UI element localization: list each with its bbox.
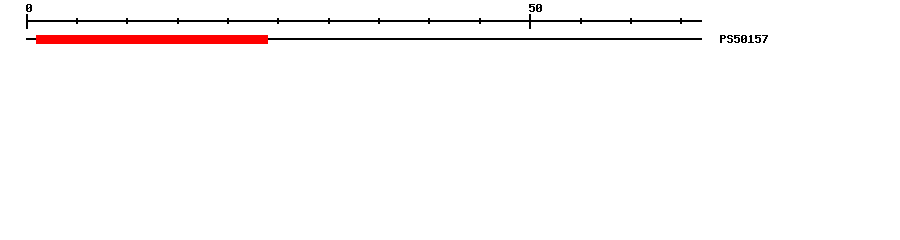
ruler minor tick 10 bbox=[126, 18, 128, 24]
ruler minor tick 65 bbox=[680, 18, 682, 24]
ruler label 50 bbox=[529, 4, 542, 12]
ruler label 0 bbox=[26, 4, 32, 12]
match bar PS50157 bbox=[36, 35, 268, 44]
ruler minor tick 45 bbox=[479, 18, 481, 24]
ruler minor tick 55 bbox=[580, 18, 582, 24]
ruler minor tick 40 bbox=[428, 18, 430, 24]
ruler major tick 0 bbox=[26, 14, 28, 29]
label PS50157 bbox=[720, 35, 768, 43]
ruler minor tick 35 bbox=[378, 18, 380, 24]
sequence line bbox=[26, 38, 702, 40]
ruler minor tick 60 bbox=[630, 18, 632, 24]
ruler minor tick 25 bbox=[277, 18, 279, 24]
ruler minor tick 5 bbox=[76, 18, 78, 24]
ruler minor tick 15 bbox=[177, 18, 179, 24]
ruler minor tick 30 bbox=[328, 18, 330, 24]
ruler axis line bbox=[26, 20, 702, 22]
ruler minor tick 20 bbox=[227, 18, 229, 24]
ruler major tick 50 bbox=[529, 14, 531, 29]
